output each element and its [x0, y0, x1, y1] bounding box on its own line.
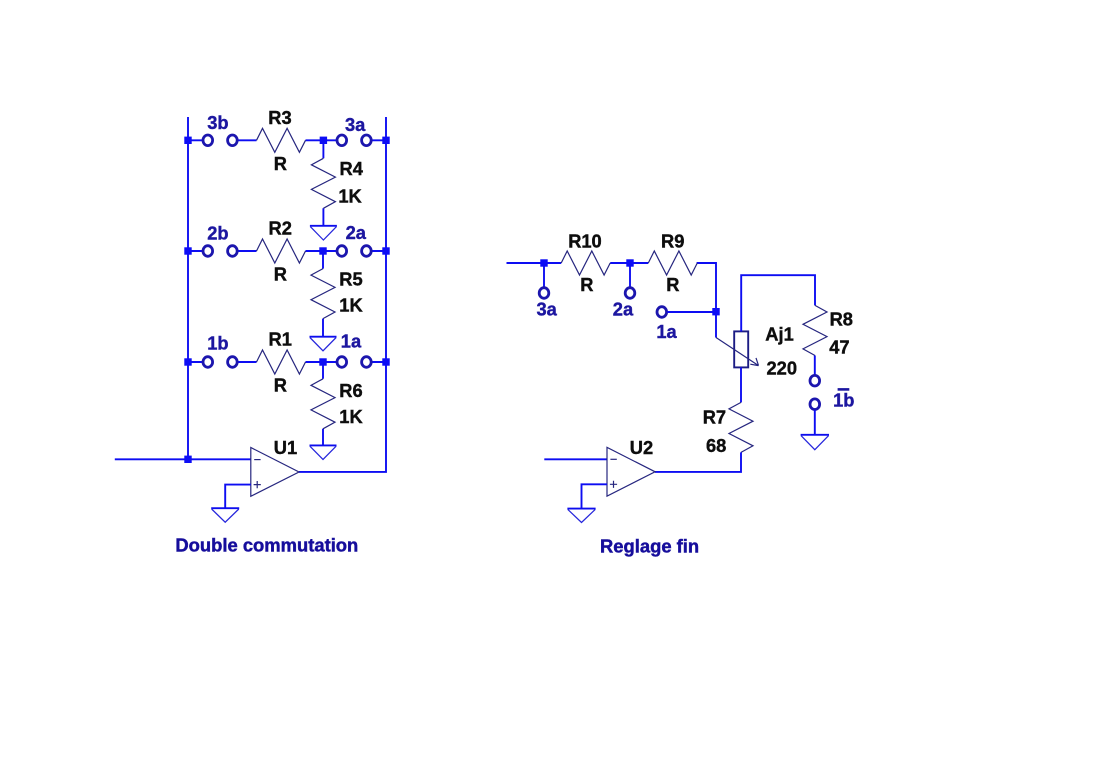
svg-text:1a: 1a [656, 321, 677, 342]
svg-text:2b: 2b [207, 222, 228, 243]
terminal 1b circle right [228, 357, 238, 368]
node square junction row 2 [319, 247, 326, 254]
ground at U2 [567, 508, 595, 510]
svg-text:R: R [580, 274, 593, 295]
svg-text:R3: R3 [268, 107, 291, 128]
svg-text:U1: U1 [274, 437, 297, 458]
terminal 3b circle right [228, 135, 238, 146]
svg-text:1b: 1b [207, 332, 228, 353]
wire 1b to ground [814, 410, 816, 435]
svg-text:R7: R7 [703, 406, 726, 427]
resistor R6 [311, 379, 335, 429]
wire row 2b-2a segments [188, 250, 386, 252]
svg-text:U2: U2 [630, 437, 653, 458]
resistor R4 [311, 158, 335, 208]
svg-text:R2: R2 [269, 218, 292, 239]
terminal 2a circle left [337, 246, 347, 257]
svg-text:Double commutation: Double commutation [175, 534, 358, 555]
terminal 3a circle right [362, 135, 372, 146]
ground at U1 [211, 507, 239, 509]
node square wiper junction [712, 308, 719, 315]
op-amp U2 minus sign [610, 458, 616, 460]
terminal 3b circle left [203, 135, 213, 146]
node square junction row 3 [319, 358, 326, 365]
op-amp U1 minus sign [254, 459, 260, 461]
ground under R6 [310, 444, 337, 446]
potentiometer Aj1 body [734, 331, 748, 367]
op-amp U2 [607, 447, 655, 496]
svg-text:R8: R8 [830, 308, 853, 329]
ground under R5 [310, 336, 337, 338]
svg-text:R4: R4 [340, 158, 364, 179]
svg-text:1b: 1b [833, 390, 854, 411]
wire U1 inverting input from left edge [115, 458, 251, 460]
terminal 1a circle left [337, 357, 347, 368]
wire left rail [187, 117, 189, 459]
op-amp U2 plus sign [610, 481, 617, 488]
resistor R10 [561, 251, 610, 275]
resistor R2 [257, 239, 306, 263]
svg-text:68: 68 [706, 435, 726, 456]
wire R6 stubs [322, 362, 324, 445]
node square left rail row 2 [184, 247, 191, 254]
terminal 2a circle [625, 288, 635, 299]
terminal 1a circle right [362, 357, 372, 368]
svg-text:220: 220 [767, 358, 798, 379]
terminal circle below R8 [810, 375, 820, 386]
terminal 1a circle [657, 307, 667, 318]
wire R4 stubs [322, 140, 324, 226]
svg-text:Aj1: Aj1 [765, 324, 793, 345]
node square left rail at U1 input [184, 456, 191, 463]
wire R5 stubs [322, 251, 324, 337]
resistor R1 [257, 350, 306, 374]
wire U1 non-inverting input [225, 485, 251, 509]
wire 3a stub [543, 263, 545, 288]
svg-text:R9: R9 [661, 230, 684, 251]
node square left rail row 1 [184, 137, 191, 144]
node square right rail row 2 [382, 247, 389, 254]
terminal 3a circle [539, 288, 549, 299]
terminal 2a circle right [362, 246, 372, 257]
svg-text:3a: 3a [345, 114, 366, 135]
svg-text:2a: 2a [346, 222, 367, 243]
terminal 2b circle left [203, 246, 213, 257]
svg-text:47: 47 [829, 337, 849, 358]
ground below 1b [801, 434, 829, 436]
node square right rail row 1 [382, 137, 389, 144]
svg-text:R5: R5 [339, 269, 362, 290]
node square at 3a stub [540, 259, 547, 266]
wire Aj1 bottom to R7 [740, 367, 742, 402]
resistor R9 [648, 251, 697, 275]
svg-text:1K: 1K [338, 186, 362, 207]
svg-text:R: R [274, 153, 287, 174]
wire right circuit top line [507, 263, 717, 338]
wire Aj1 top to R8 top [741, 275, 815, 331]
wire U2 inverting input [544, 458, 607, 460]
wiper arrow of Aj1 [716, 338, 759, 366]
svg-text:2a: 2a [613, 299, 634, 320]
op-amp U1 [251, 448, 299, 497]
svg-text:R10: R10 [568, 230, 602, 251]
terminal 3a circle left [337, 135, 347, 146]
svg-text:1a: 1a [341, 331, 362, 352]
terminal 1b circle [810, 399, 820, 410]
wire R7 bottom to U2 output [655, 452, 741, 472]
ground under R4 [310, 225, 337, 227]
wire row 1b-1a segments [188, 361, 386, 363]
svg-text:R: R [274, 374, 287, 395]
resistor R8 [803, 305, 827, 355]
overbar of label 1b [838, 388, 850, 391]
resistor R3 [257, 128, 306, 152]
svg-text:R1: R1 [269, 328, 292, 349]
resistor R5 [311, 269, 335, 319]
svg-text:3a: 3a [537, 299, 558, 320]
wire row 3b-3a segments [188, 139, 386, 141]
node square junction row 1 [320, 137, 327, 144]
op-amp U1 plus sign [254, 481, 261, 488]
resistor R7 [729, 402, 753, 452]
node square at 2a stub [626, 259, 633, 266]
svg-text:R: R [666, 274, 679, 295]
svg-text:Reglage fin: Reglage fin [600, 535, 699, 556]
svg-text:1K: 1K [339, 294, 363, 315]
wire right rail and output corner [299, 117, 386, 472]
wire 1a to junction [667, 311, 716, 313]
wire U2 non-inverting input [582, 484, 608, 508]
svg-text:1K: 1K [339, 406, 363, 427]
node square right rail row 3 [382, 358, 389, 365]
terminal 2b circle right [228, 246, 238, 257]
node square left rail row 3 [184, 358, 191, 365]
svg-text:R6: R6 [339, 380, 362, 401]
wire 2a stub [629, 263, 631, 288]
wire R8 bottom stub [814, 356, 816, 376]
svg-text:3b: 3b [207, 112, 228, 133]
svg-text:R: R [274, 264, 287, 285]
terminal 1b circle left [203, 357, 213, 368]
